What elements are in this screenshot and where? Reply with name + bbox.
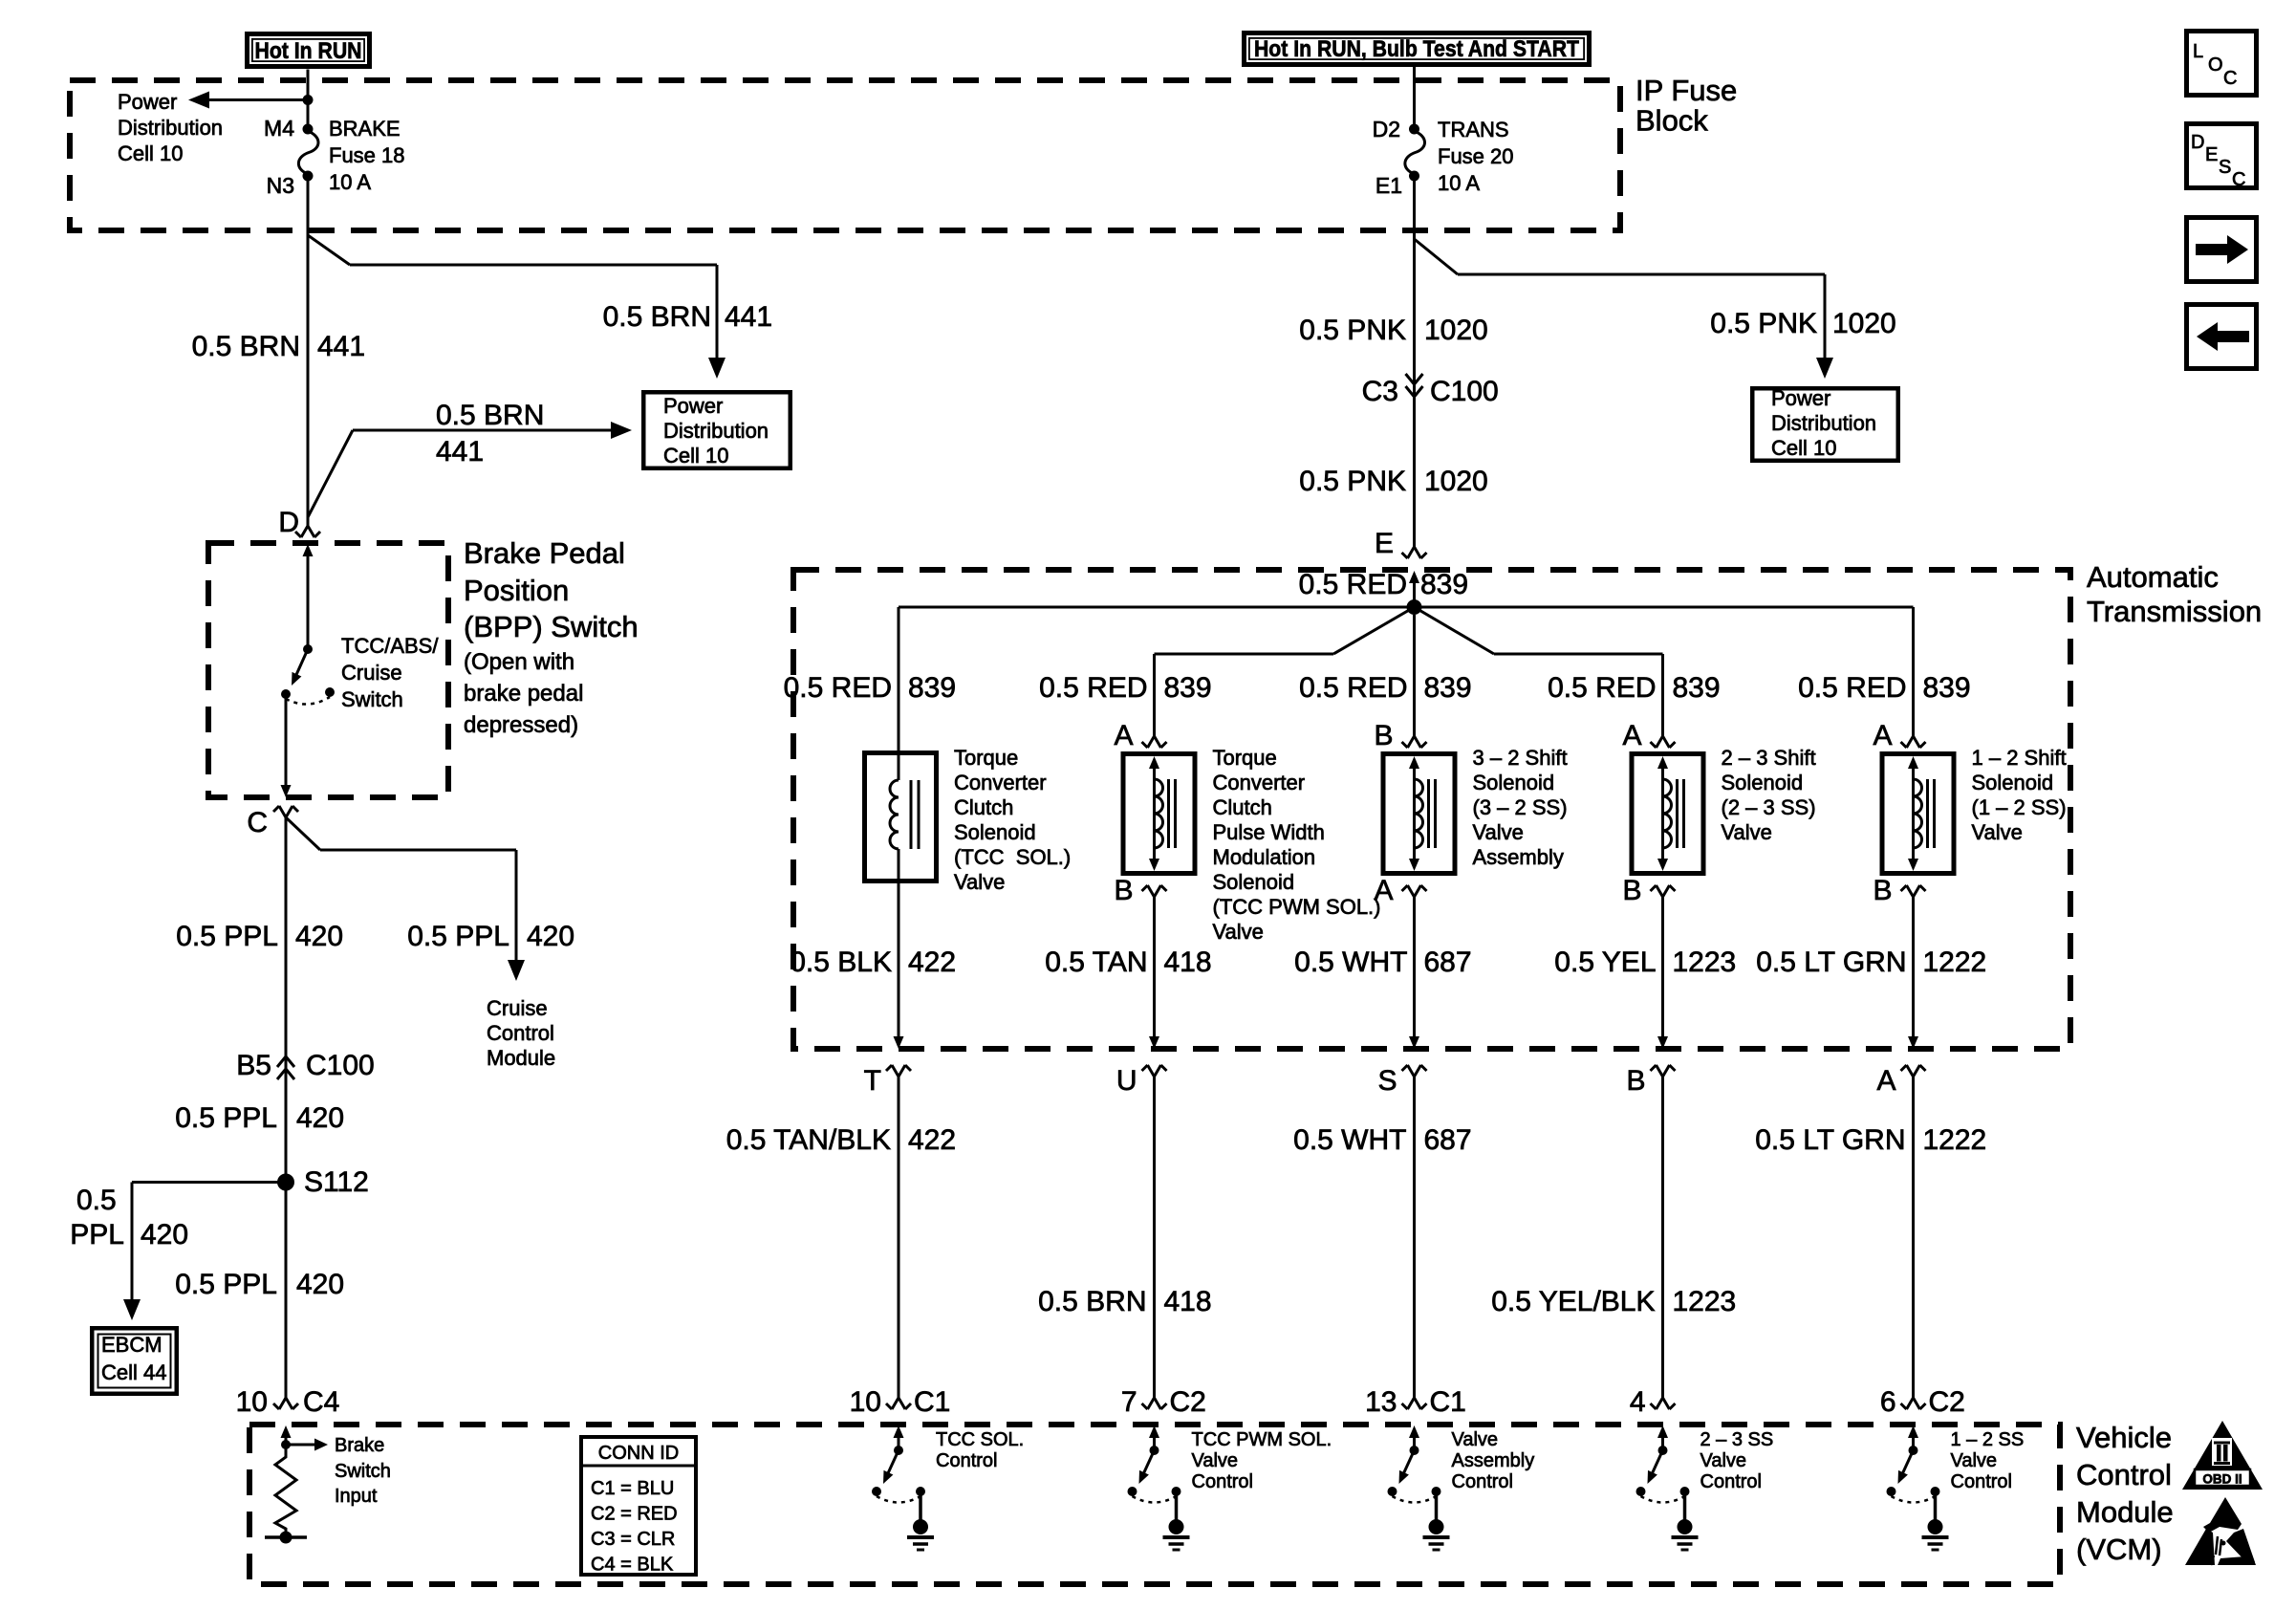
svg-text:0.5 BRN: 0.5 BRN (192, 331, 300, 362)
svg-text:0.5 PPL: 0.5 PPL (175, 1269, 277, 1300)
svg-text:839: 839 (1164, 672, 1212, 704)
svg-text:(Open with: (Open with (464, 649, 574, 675)
svg-text:Solenoid: Solenoid (954, 820, 1036, 844)
svg-text:M4: M4 (264, 116, 294, 141)
svg-text:C1: C1 (914, 1386, 950, 1418)
svg-text:TCC/ABS/: TCC/ABS/ (341, 634, 439, 658)
svg-text:Valve: Valve (954, 870, 1005, 894)
svg-text:418: 418 (1164, 1286, 1212, 1317)
svg-text:Position: Position (464, 574, 569, 607)
svg-text:6: 6 (1880, 1386, 1896, 1418)
svg-text:0.5 PNK: 0.5 PNK (1299, 466, 1406, 497)
svg-text:0.5 RED: 0.5 RED (784, 672, 892, 704)
svg-text:420: 420 (141, 1219, 188, 1251)
svg-text:10: 10 (850, 1386, 881, 1418)
svg-text:Block: Block (1635, 104, 1708, 138)
svg-text:(3 – 2 SS): (3 – 2 SS) (1473, 795, 1568, 819)
svg-text:Fuse 20: Fuse 20 (1438, 144, 1514, 168)
svg-text:441: 441 (725, 301, 772, 333)
svg-text:(TCC SOL.): (TCC SOL.) (954, 845, 1071, 869)
svg-text:Control: Control (487, 1021, 554, 1045)
svg-text:1020: 1020 (1832, 308, 1896, 339)
svg-text:10 A: 10 A (329, 170, 371, 194)
svg-text:1020: 1020 (1424, 466, 1488, 497)
svg-text:C100: C100 (306, 1050, 375, 1081)
svg-text:Solenoid: Solenoid (1722, 771, 1804, 794)
svg-text:A: A (1873, 720, 1892, 751)
svg-text:0.5 BRN: 0.5 BRN (1038, 1286, 1146, 1317)
svg-text:Valve: Valve (1700, 1450, 1747, 1471)
svg-text:1223: 1223 (1673, 1286, 1737, 1317)
svg-text:0.5 PPL: 0.5 PPL (176, 921, 278, 952)
svg-text:Distribution: Distribution (663, 419, 769, 443)
svg-text:Brake Pedal: Brake Pedal (464, 536, 625, 570)
svg-text:0.5 WHT: 0.5 WHT (1293, 1124, 1406, 1156)
svg-text:Pulse Width: Pulse Width (1213, 820, 1325, 844)
svg-text:0.5 BRN: 0.5 BRN (603, 301, 711, 333)
svg-text:Fuse 18: Fuse 18 (329, 143, 405, 167)
svg-text:C2: C2 (1929, 1386, 1965, 1418)
svg-text:B: B (1114, 875, 1133, 906)
svg-text:Control: Control (1951, 1471, 2012, 1492)
svg-text:Input: Input (335, 1486, 378, 1507)
svg-text:2 – 3 Shift: 2 – 3 Shift (1722, 746, 1816, 770)
svg-text:1020: 1020 (1424, 315, 1488, 346)
svg-text:441: 441 (436, 436, 484, 468)
svg-text:Power: Power (118, 90, 177, 114)
svg-text:Automatic: Automatic (2087, 560, 2219, 594)
svg-text:B: B (1374, 720, 1393, 751)
svg-text:C4 = BLK: C4 = BLK (591, 1555, 674, 1576)
svg-text:Valve: Valve (1722, 820, 1772, 844)
svg-text:Cell 10: Cell 10 (663, 444, 728, 468)
svg-text:420: 420 (295, 921, 343, 952)
svg-text:Cell 10: Cell 10 (118, 141, 183, 165)
svg-text:(1 – 2 SS): (1 – 2 SS) (1972, 795, 2067, 819)
svg-text:Module: Module (487, 1046, 555, 1070)
svg-text:TCC SOL.: TCC SOL. (936, 1429, 1024, 1450)
svg-text:L: L (2193, 41, 2203, 62)
svg-text:N3: N3 (267, 173, 294, 198)
svg-text:Clutch: Clutch (954, 795, 1013, 819)
svg-text:839: 839 (1923, 672, 1971, 704)
svg-text:D: D (2191, 132, 2204, 153)
svg-text:Converter: Converter (1213, 771, 1306, 794)
svg-text:441: 441 (317, 331, 365, 362)
svg-text:Torque: Torque (1213, 746, 1277, 770)
svg-text:0.5 PNK: 0.5 PNK (1299, 315, 1406, 346)
svg-text:A: A (1876, 1065, 1895, 1097)
svg-text:Cruise: Cruise (487, 996, 548, 1020)
svg-text:Control: Control (1192, 1471, 1253, 1492)
svg-text:Control: Control (1452, 1471, 1513, 1492)
svg-text:Switch: Switch (335, 1461, 391, 1482)
svg-text:D2: D2 (1373, 117, 1400, 141)
svg-text:13: 13 (1365, 1386, 1397, 1418)
svg-text:420: 420 (296, 1269, 344, 1300)
svg-text:OBD II: OBD II (2202, 1472, 2242, 1487)
svg-text:1223: 1223 (1673, 946, 1737, 978)
svg-text:418: 418 (1164, 946, 1212, 978)
svg-text:Solenoid: Solenoid (1473, 771, 1555, 794)
svg-text:A: A (1114, 720, 1133, 751)
svg-text:TCC PWM SOL.: TCC PWM SOL. (1192, 1429, 1332, 1450)
svg-text:C4: C4 (303, 1386, 339, 1418)
svg-text:E1: E1 (1375, 173, 1402, 198)
svg-text:Hot In RUN, Bulb Test And STAR: Hot In RUN, Bulb Test And START (1254, 36, 1579, 62)
svg-text:1 – 2 Shift: 1 – 2 Shift (1972, 746, 2067, 770)
svg-text:10: 10 (236, 1386, 268, 1418)
svg-text:B: B (1626, 1065, 1645, 1097)
svg-text:3 – 2 Shift: 3 – 2 Shift (1473, 746, 1568, 770)
svg-text:B5: B5 (236, 1050, 271, 1081)
svg-text:7: 7 (1121, 1386, 1137, 1418)
svg-text:Module: Module (2076, 1495, 2174, 1529)
svg-text:1 – 2 SS: 1 – 2 SS (1951, 1429, 2025, 1450)
svg-text:Modulation: Modulation (1213, 845, 1316, 869)
svg-text:0.5 YEL: 0.5 YEL (1554, 946, 1656, 978)
svg-text:10 A: 10 A (1438, 171, 1480, 195)
svg-text:T: T (864, 1065, 881, 1097)
svg-text:687: 687 (1424, 1124, 1472, 1156)
svg-text:C1 = BLU: C1 = BLU (591, 1478, 674, 1499)
svg-text:Converter: Converter (954, 771, 1047, 794)
svg-text:420: 420 (527, 921, 574, 952)
svg-text:2 – 3 SS: 2 – 3 SS (1700, 1429, 1774, 1450)
svg-text:Control: Control (1700, 1471, 1762, 1492)
svg-text:Solenoid: Solenoid (1213, 870, 1295, 894)
svg-text:Control: Control (936, 1450, 997, 1471)
svg-text:C3: C3 (1362, 376, 1398, 407)
svg-text:Power: Power (663, 394, 723, 418)
svg-text:S112: S112 (304, 1166, 369, 1198)
svg-text:A: A (1622, 720, 1641, 751)
svg-text:Distribution: Distribution (1771, 411, 1876, 435)
svg-text:0.5 LT GRN: 0.5 LT GRN (1756, 946, 1906, 978)
svg-text:Distribution: Distribution (118, 116, 223, 140)
svg-text:0.5 TAN: 0.5 TAN (1045, 946, 1147, 978)
svg-text:0.5 RED: 0.5 RED (1548, 672, 1656, 704)
svg-text:Valve: Valve (1213, 920, 1264, 944)
svg-text:(BPP) Switch: (BPP) Switch (464, 610, 639, 643)
svg-text:0.5 TAN/BLK: 0.5 TAN/BLK (726, 1124, 891, 1156)
svg-text:Assembly: Assembly (1452, 1450, 1535, 1471)
svg-text:Cell 10: Cell 10 (1771, 436, 1836, 460)
svg-text:0.5 PPL: 0.5 PPL (175, 1102, 277, 1134)
svg-text:839: 839 (1673, 672, 1721, 704)
svg-text:839: 839 (908, 672, 956, 704)
svg-text:CONN ID: CONN ID (598, 1443, 679, 1464)
svg-text:depressed): depressed) (464, 712, 578, 738)
svg-text:0.5 WHT: 0.5 WHT (1294, 946, 1407, 978)
svg-text:S: S (2219, 157, 2231, 178)
svg-text:E: E (1375, 528, 1394, 559)
svg-text:C: C (2232, 169, 2245, 190)
svg-text:BRAKE: BRAKE (329, 117, 401, 141)
svg-text:0.5 BRN: 0.5 BRN (436, 400, 544, 431)
svg-text:839: 839 (1420, 569, 1468, 600)
svg-text:TRANS: TRANS (1438, 118, 1509, 141)
svg-text:Cruise: Cruise (341, 661, 402, 685)
svg-text:(2 – 3 SS): (2 – 3 SS) (1722, 795, 1816, 819)
svg-text:Valve: Valve (1452, 1429, 1499, 1450)
svg-text:Assembly: Assembly (1473, 845, 1564, 869)
svg-text:Clutch: Clutch (1213, 795, 1272, 819)
svg-text:0.5 RED: 0.5 RED (1299, 569, 1407, 600)
svg-text:C: C (247, 807, 268, 838)
svg-text:0.5: 0.5 (76, 1185, 117, 1216)
svg-text:1222: 1222 (1923, 946, 1987, 978)
svg-text:Solenoid: Solenoid (1972, 771, 2054, 794)
svg-text:0.5 PPL: 0.5 PPL (407, 921, 509, 952)
svg-text:C100: C100 (1430, 376, 1499, 407)
svg-text:C2: C2 (1170, 1386, 1206, 1418)
svg-text:0.5 YEL/BLK: 0.5 YEL/BLK (1491, 1286, 1655, 1317)
svg-text:0.5 PNK: 0.5 PNK (1710, 308, 1817, 339)
svg-text:0.5 BLK: 0.5 BLK (790, 946, 892, 978)
svg-text:422: 422 (908, 1124, 956, 1156)
svg-text:(VCM): (VCM) (2076, 1533, 2162, 1566)
svg-text:B: B (1873, 875, 1892, 906)
svg-text:brake pedal: brake pedal (464, 681, 583, 707)
svg-text:1222: 1222 (1923, 1124, 1987, 1156)
svg-text:0.5 RED: 0.5 RED (1039, 672, 1147, 704)
svg-text:Torque: Torque (954, 746, 1018, 770)
svg-text:Transmission: Transmission (2087, 595, 2262, 628)
svg-text:Valve: Valve (1951, 1450, 1998, 1471)
svg-text:(TCC PWM SOL.): (TCC PWM SOL.) (1213, 895, 1381, 919)
svg-text:Control: Control (2076, 1458, 2172, 1491)
svg-text:C3 = CLR: C3 = CLR (591, 1529, 675, 1550)
svg-text:Valve: Valve (1972, 820, 2023, 844)
svg-text:Valve: Valve (1192, 1450, 1239, 1471)
svg-text:4: 4 (1630, 1386, 1646, 1418)
svg-text:C: C (2223, 68, 2237, 89)
svg-text:Vehicle: Vehicle (2076, 1421, 2172, 1454)
svg-text:C2 = RED: C2 = RED (591, 1504, 678, 1525)
svg-text:EBCM: EBCM (101, 1333, 162, 1357)
svg-text:Switch: Switch (341, 687, 403, 711)
svg-text:0.5 LT GRN: 0.5 LT GRN (1755, 1124, 1905, 1156)
svg-text:Valve: Valve (1473, 820, 1524, 844)
svg-text:687: 687 (1424, 946, 1472, 978)
svg-text:0.5 RED: 0.5 RED (1798, 672, 1906, 704)
svg-text:Power: Power (1771, 386, 1830, 410)
svg-text:U: U (1116, 1065, 1137, 1097)
svg-text:420: 420 (296, 1102, 344, 1134)
svg-text:Hot In RUN: Hot In RUN (255, 38, 362, 64)
svg-text:Brake: Brake (335, 1435, 384, 1456)
svg-text:PPL: PPL (70, 1219, 124, 1251)
svg-text:839: 839 (1424, 672, 1472, 704)
svg-text:0.5 RED: 0.5 RED (1299, 672, 1407, 704)
svg-text:422: 422 (908, 946, 956, 978)
svg-text:Cell 44: Cell 44 (101, 1360, 166, 1384)
svg-text:E: E (2205, 144, 2218, 165)
svg-text:S: S (1377, 1065, 1397, 1097)
svg-text:O: O (2208, 54, 2223, 76)
svg-text:IP Fuse: IP Fuse (1635, 74, 1737, 107)
svg-text:B: B (1622, 875, 1641, 906)
svg-text:C1: C1 (1430, 1386, 1466, 1418)
